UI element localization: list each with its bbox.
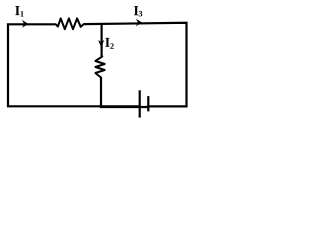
label I3 glyph I (134, 6, 138, 15)
wire: middle branch from R2 down to bottom wire (101, 77, 148, 107)
node A: junction wire from top wire down to R2 (100, 23, 102, 57)
wire: left side loop (top-left segment, left side, bottom-left segment) (8, 24, 139, 106)
label I2 glyph I (105, 38, 109, 47)
resistor R1 (horizontal, top wire) (56, 18, 84, 29)
current arrow I2 (arrowhead on middle branch, pointing down) (98, 40, 104, 48)
current arrow I1 (arrowhead on top-left wire, pointing right) (22, 20, 28, 28)
label I3 subscript 3 (139, 11, 143, 17)
wire: right side loop (top-right segment, right side, bottom-right segment) (84, 23, 187, 107)
battery B1 long plate (139, 90, 141, 117)
label I2 subscript 2 (110, 43, 113, 48)
current arrow I3 (arrowhead on top-right wire, pointing right) (136, 19, 142, 27)
label I1 glyph I (15, 6, 19, 15)
battery B1 short plate (147, 96, 149, 111)
label I1 subscript 1 (21, 11, 24, 16)
resistor R2 (vertical, middle branch) (95, 56, 104, 77)
